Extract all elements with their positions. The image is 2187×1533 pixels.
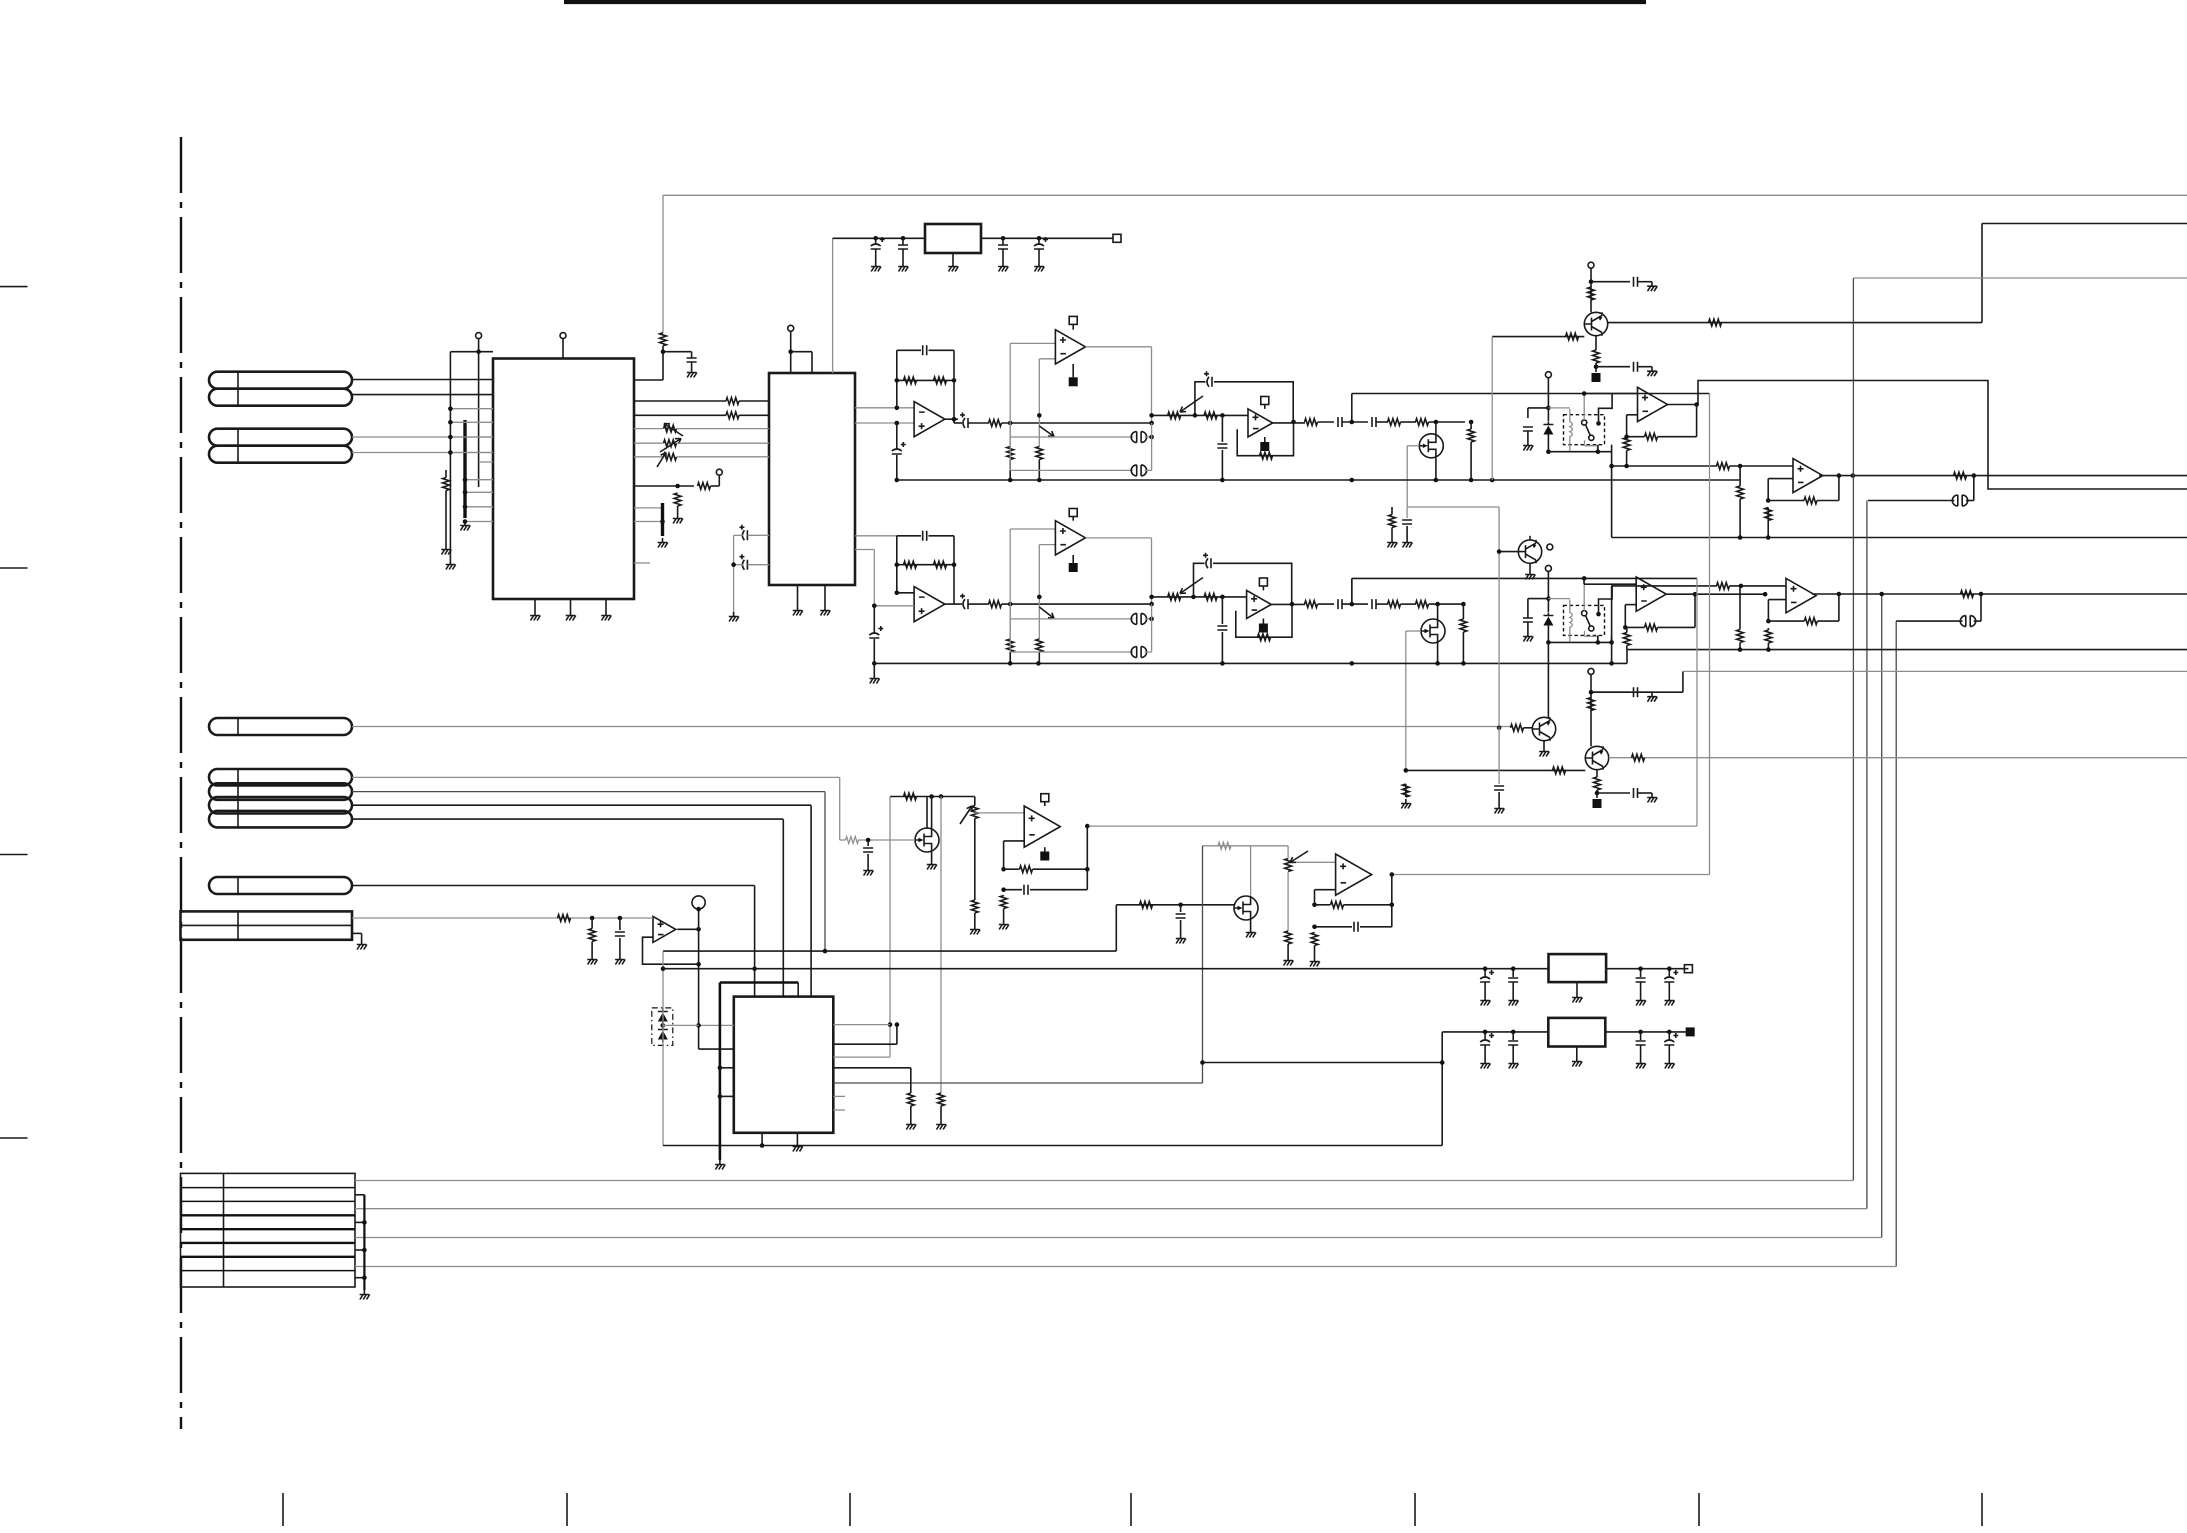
mute FET M1 (1419, 434, 1443, 458)
CN7 wire row3 to bus2 (355, 1208, 1867, 1210)
resistor R60 (1285, 931, 1292, 944)
capacitor C12 (1634, 277, 1638, 287)
resistor R18 (1566, 333, 1579, 340)
jumper branch drop lower (1980, 594, 1982, 621)
M1 gate drop (1406, 446, 1408, 507)
A5 feedback leg (1626, 415, 1628, 437)
ground below R64 (587, 955, 597, 965)
connector CN4 pin D (209, 811, 352, 828)
branch up to A7 (1009, 529, 1011, 639)
IC3 right pin stub B (833, 1109, 845, 1111)
IC1 left pin stub 4 (450, 452, 493, 454)
A8 output wire (1271, 603, 1305, 605)
supply line drop to R2 (662, 195, 664, 332)
ground below C32 (615, 955, 625, 965)
terminal TP3 (716, 469, 722, 475)
ground at CN6 (357, 940, 367, 950)
resistor R25 (1954, 472, 1967, 479)
CN7 row line 3 (181, 1214, 356, 1216)
connector CN6 body (181, 911, 353, 939)
resistor R32 (1204, 594, 1217, 601)
relay RL1 pin drop (1597, 445, 1599, 452)
IC1 right pin wire mute (634, 485, 694, 487)
left loop vertical (662, 951, 664, 1145)
relay drive vertical lower (1498, 507, 1500, 728)
ground below R38 (1387, 538, 1397, 548)
IC2 pin to A1 noninverting input (855, 422, 914, 424)
op-amp A6 (914, 587, 945, 622)
A12 output line (1392, 874, 1710, 876)
M4 drain row (1203, 845, 1251, 847)
regulator IC4 ground pin (952, 253, 954, 262)
A1 feedback resistor row (897, 379, 954, 381)
resistor R24 (1765, 508, 1772, 521)
wire R34 to C21 (1318, 603, 1335, 605)
ground below C18 (870, 674, 880, 684)
IC2 bottom pin 1 (797, 585, 799, 606)
Q1 output line (1608, 322, 1982, 324)
IC3 pin wire A (720, 1067, 734, 1069)
capacitor C6 (923, 345, 927, 355)
M4 drain wire (1250, 846, 1252, 896)
CN7 wire row1 to bus1 (355, 1180, 1853, 1182)
resistor R49 (1632, 754, 1645, 761)
pill line C drop (810, 805, 812, 996)
connector CN1 pin B (209, 389, 352, 406)
wire CN2-A to IC1 (352, 436, 493, 438)
connector CN1 pin A (209, 372, 352, 389)
FET M3 (915, 828, 939, 852)
CN7 row line 4 (181, 1228, 356, 1230)
ground below Q3 (1539, 747, 1549, 757)
vertical bus 1 (1852, 278, 1854, 1180)
CN7 row line 7 (181, 1270, 356, 1272)
ground below C34 (1508, 996, 1518, 1006)
op-amp A12 (1336, 854, 1372, 895)
A9 output wire (1666, 593, 1765, 595)
resistor R2 (660, 333, 667, 346)
terminal square TP13 (1069, 509, 1077, 517)
capacitor C8 (1217, 444, 1227, 448)
A7 output wire (1086, 537, 1152, 539)
ground below C24 (1523, 632, 1533, 642)
IC1 to IC2 wire 3 (634, 428, 663, 430)
wire CN1-B to IC1 (352, 394, 493, 396)
capacitor C43 (892, 442, 906, 454)
FET M4 (1234, 896, 1258, 920)
ground below R60 (1283, 956, 1293, 966)
A12 inverting wire (1315, 889, 1336, 891)
CN4 wire A (352, 776, 840, 778)
A1 bias leg (896, 423, 898, 449)
A7 output drop (1151, 538, 1153, 604)
IC3 right long wire D (833, 1082, 1202, 1084)
bias vertical (889, 797, 891, 1058)
resistor R51 (1402, 784, 1409, 797)
resistor R46 (1511, 724, 1524, 731)
A6 feedback right leg (953, 536, 955, 604)
IC1 left pin stub 8 (465, 521, 493, 523)
feedback to output (1817, 500, 1839, 502)
op-amp A10 (1786, 578, 1816, 612)
CN7 row line 2 (181, 1200, 356, 1202)
A13 output wire (677, 928, 698, 930)
M2 drain wire (1437, 604, 1439, 619)
wire into A7 noninverting (1010, 528, 1055, 530)
junction long line branch lower (1350, 602, 1355, 607)
vertical bus 3 (1881, 594, 1883, 1238)
diode D2 (1543, 617, 1553, 626)
resistor R37 (1460, 619, 1467, 632)
regulator IC6 ground pin (1576, 1047, 1578, 1058)
line to right edge 671 (1683, 670, 2187, 672)
terminal square TP21 (1041, 794, 1049, 802)
terminal square TP24 (1684, 965, 1692, 973)
A1 feedback right leg (953, 350, 955, 423)
lower channel bus line (1352, 577, 1697, 579)
M4 gate row (1116, 904, 1234, 906)
variable resistor VR1 (664, 425, 677, 432)
wire C21 to node (1342, 603, 1368, 605)
wire C26 to ground (1638, 792, 1653, 794)
capacitor C26 (1634, 788, 1638, 798)
mute FET M2 (1421, 619, 1445, 643)
M1 drain wire (1435, 422, 1437, 434)
connector CN7 table body (181, 1173, 356, 1287)
wire VR4 to A11 (975, 812, 1024, 814)
R66 to rail (1009, 460, 1011, 481)
resistor R29 (934, 561, 947, 568)
cap feed vertical (733, 535, 735, 612)
wire into A2 noninverting (1010, 342, 1055, 344)
pot wiper arrow upper (1039, 426, 1054, 437)
R69 to rail (1038, 652, 1040, 663)
A4 feedback left leg (1767, 479, 1769, 501)
long riser to IC3 row (1202, 846, 1204, 1083)
wire to jumper JP5 (1010, 651, 1133, 653)
IC3 bottom pin 2 (796, 1133, 798, 1142)
resistor R57 (1000, 896, 1007, 909)
capacitor C35 (1636, 978, 1646, 982)
op-amp A1 (914, 402, 945, 437)
A6 feedback left leg (896, 536, 898, 593)
bottom fold mark 1 (282, 1493, 284, 1526)
connector CN2 pin B (209, 446, 352, 463)
resistor R56 (1020, 866, 1033, 873)
capacitor C21 (1338, 599, 1342, 609)
A10 feedback left leg (1767, 600, 1769, 622)
ground below bold bar right (658, 538, 668, 548)
Q1 base wire (1492, 336, 1584, 338)
wire below C23 (1406, 526, 1408, 538)
capacitor C2 (871, 237, 885, 249)
ground below C2 (871, 262, 881, 272)
bias feed wire lower (1407, 506, 1499, 508)
IC1 DSP box (493, 359, 634, 600)
junction relay net lower (1546, 596, 1551, 601)
wire to output riser (1591, 691, 1683, 693)
ground below C27 (1494, 804, 1504, 814)
capacitor C7 (960, 413, 968, 429)
IC2 pin to A6 input (855, 549, 874, 551)
jumper JP3 wire (1868, 500, 1955, 502)
ground below C38 (1508, 1059, 1518, 1069)
ground below C28 (863, 866, 873, 876)
wire A8 to TP16 (1262, 619, 1264, 624)
rail step (1626, 650, 1628, 664)
pill line B drop (824, 792, 826, 952)
wire above R1 (445, 470, 447, 478)
relay RL2 to A10 riser (1611, 586, 1613, 643)
wire TP12 to diode (1547, 378, 1549, 421)
resistor R54 (938, 1093, 945, 1106)
capacitor C34 (1508, 978, 1518, 982)
ground below R55 (970, 925, 980, 935)
junction to A7 branch (1008, 602, 1013, 607)
A4 output line to right edge (1819, 475, 2187, 477)
A5 noninverting wire (1584, 393, 1638, 395)
IC1 to IC2 data wire 1 (634, 400, 726, 402)
wire R2 to IC1 pin net (662, 346, 664, 380)
vertical bus 2 (1866, 501, 1868, 1209)
wire JP2 to node (1145, 469, 1152, 471)
A1 output wire (944, 418, 958, 420)
A5 inverting stub (1627, 414, 1638, 416)
wire to C12 (1591, 281, 1630, 283)
capacitor C33 (1480, 970, 1494, 982)
wire TP8 to A3 (1264, 405, 1266, 409)
wire to jumper JP1 (1010, 436, 1133, 438)
A6 bias leg (873, 606, 875, 633)
IC2 pin to A6 feedback node (855, 535, 897, 537)
CN4 wire C (352, 804, 811, 806)
M3 drain wire (926, 797, 928, 830)
input drop to A6 (873, 550, 875, 606)
wire C10 to node (1342, 421, 1368, 423)
IC1 right pin stub C (634, 562, 650, 564)
resistor R11 (1204, 412, 1217, 419)
resistor R30 (989, 601, 1002, 608)
junction pill line B (823, 949, 828, 954)
regulator IC5 ground pin (1576, 982, 1578, 993)
wire VR1 to IC2 (677, 428, 769, 430)
regulator IC5 output wire (1606, 968, 1688, 970)
wire JP1 to node (1145, 436, 1152, 438)
connector CN4 divider (237, 769, 239, 827)
op-amp A3b lower mirror output network wire (1666, 404, 1698, 406)
lower power rail to right edge (1627, 649, 2187, 651)
feedback to output (1033, 868, 1088, 870)
output line to right edge top (1982, 223, 2187, 225)
connector CN5 (209, 877, 352, 894)
resistor R3 (726, 398, 739, 405)
CN6 ground stub (352, 932, 362, 934)
bottom loop riser (1441, 1032, 1443, 1146)
resistor R34 (1305, 601, 1318, 608)
jumper JP1 (1131, 432, 1146, 443)
CN5 wire (352, 885, 755, 887)
test point TP16 (1259, 624, 1268, 633)
bottom supply loop wire (663, 1145, 1442, 1147)
VR4 lower leg (974, 819, 976, 901)
IC1 to IC2 wire 4 (634, 442, 663, 444)
connector CN4 pin A (209, 769, 352, 786)
wire TP6 to A2 (1072, 324, 1074, 329)
wire C25 to ground (1638, 691, 1653, 693)
IC1 left pin stub 5 (465, 479, 493, 481)
IC1 left pin stub 1 (450, 408, 493, 410)
R22 upper leg (1739, 466, 1741, 486)
CN7 row line 6 (181, 1256, 356, 1258)
transistor Q4 (1585, 746, 1608, 769)
jumper branch drop (1973, 476, 1975, 501)
M2 source to rail (1437, 643, 1439, 663)
ground below R1 (441, 545, 451, 555)
capacitor C36 (1664, 970, 1678, 982)
A13 output into IC3 (699, 1048, 734, 1050)
capacitor C18 (869, 626, 883, 638)
connector CN2 divider (237, 429, 239, 463)
op-amp A2 monitor (1055, 330, 1085, 364)
A11 cap feedback row (1004, 889, 1022, 891)
resistor R52 (846, 837, 859, 844)
ground below C37 (1480, 1059, 1490, 1069)
wire below C5 (1038, 249, 1040, 262)
relay RL1 contact riser (1599, 394, 1613, 424)
terminal square TP8 (1261, 397, 1269, 405)
test point TP11 (1592, 373, 1601, 382)
M4 row to VR5 (1251, 845, 1289, 847)
A2 inverting branch (1038, 359, 1040, 447)
capacitor C20 (1203, 553, 1211, 569)
connector CN3 (209, 718, 352, 735)
Q2 emitter wire (1529, 563, 1531, 570)
capacitor C24 (1523, 618, 1533, 622)
ground below C40 (1665, 1059, 1675, 1069)
wire node to A8 input (1152, 596, 1247, 598)
title underline bar (564, 0, 1646, 4)
A12 cap feedback row (1315, 926, 1353, 928)
IC3 right pin wire C (833, 1043, 897, 1045)
junction C8 (1220, 413, 1225, 418)
ground below M3 (927, 860, 937, 870)
A12 feedback leg (1314, 890, 1316, 905)
wire into C1 (691, 352, 693, 358)
branch up to A2 (1009, 343, 1011, 446)
R67 to rail (1038, 460, 1040, 481)
wire R35 to R36 (1401, 603, 1417, 605)
op-amp A3 (1248, 409, 1273, 437)
A6 output wire (944, 603, 962, 605)
feedback return loop upper (1698, 381, 2187, 490)
M1 gate wire (1407, 445, 1419, 447)
resistor R4 (726, 412, 739, 419)
ground below R65 (906, 1120, 916, 1130)
wire below R1 (445, 491, 447, 546)
junction Q3 base net (1497, 726, 1502, 731)
A9 feedback to output (1658, 626, 1696, 628)
A9 inverting stub (1625, 604, 1636, 606)
M2 gate drop long (1405, 631, 1407, 770)
resistor R21 (1717, 463, 1730, 470)
vertical feed wire left of IC1 (449, 352, 451, 560)
A1 feedback top (897, 349, 921, 351)
feedback to output lower (1817, 620, 1839, 622)
dual diode D3 dash-dot box (652, 1008, 673, 1046)
junction A1 feedback (895, 406, 900, 411)
terminal TP18 (1545, 565, 1551, 571)
ground below C39 (1636, 1059, 1646, 1069)
wire below C4 (1002, 249, 1004, 262)
op-amp A13 (653, 916, 676, 942)
left jumper leg lower (1009, 604, 1011, 652)
test point TP22 (1040, 852, 1049, 861)
wire R41 to A10 (1730, 585, 1787, 587)
relay RL2 contact riser (1599, 584, 1613, 614)
terminal TP4 (788, 325, 794, 331)
wire C7 to R9 (968, 422, 989, 424)
wire below R5 (677, 506, 679, 514)
diode D2 lower wire (1547, 629, 1549, 643)
terminal TP19 (1588, 668, 1594, 674)
capacitor C32 (615, 932, 625, 936)
wire R9 to node (1002, 422, 1152, 424)
pill line D drop (782, 819, 784, 997)
inner rect drop (797, 983, 799, 997)
wire TP2 to IC1 top (562, 339, 564, 359)
wire A11 to TP22 (1044, 847, 1046, 851)
A10 output line to right edge (1812, 593, 2187, 595)
CN7 row6 stub (355, 1249, 364, 1251)
ground below bold bar (460, 521, 470, 531)
ground below CN7 bus (360, 1290, 370, 1300)
bold decoupling bar at IC1 left (463, 420, 466, 518)
A11 feedback leg (1003, 841, 1005, 869)
wire R4 to IC2 (739, 414, 769, 416)
A6 feedback top (897, 535, 921, 537)
A11 output drop (1086, 826, 1088, 890)
wire A3 to TP9 (1264, 437, 1266, 442)
resistor R31 (1168, 594, 1181, 601)
capacitor C29 (1024, 885, 1028, 895)
resistor R16 (1468, 429, 1475, 442)
capacitor C17 (960, 594, 968, 610)
A3 inner feedback loop (1237, 422, 1293, 456)
wire below C24 (1527, 623, 1529, 633)
ground below C42 (729, 612, 739, 622)
resistor R13 (1305, 419, 1318, 426)
relay RL2 output drop (1611, 635, 1613, 663)
potentiometer VR4 (971, 806, 978, 819)
test point TP20 (1593, 799, 1602, 808)
regulator IC6 output wire (1605, 1031, 1690, 1033)
capacitor C25 (1634, 687, 1638, 697)
lower channel ground rail (874, 662, 1627, 664)
branch to C19 (1221, 597, 1223, 624)
voltage regulator IC6 box (1548, 1018, 1605, 1047)
A8 outer feedback loop (1194, 563, 1292, 603)
capacitor C40 (1664, 1033, 1678, 1045)
node drop lower (1151, 604, 1153, 652)
R40 to rail (1626, 646, 1628, 650)
A9 feedback leg (1624, 605, 1626, 628)
wire C22 to R35 (1376, 603, 1388, 605)
wire TP4 to IC2 top (790, 331, 792, 373)
ground below C4 (998, 262, 1008, 272)
CN5 wire drop (754, 886, 756, 997)
R68 to rail (1009, 652, 1011, 663)
wire to C26 (1597, 792, 1630, 794)
